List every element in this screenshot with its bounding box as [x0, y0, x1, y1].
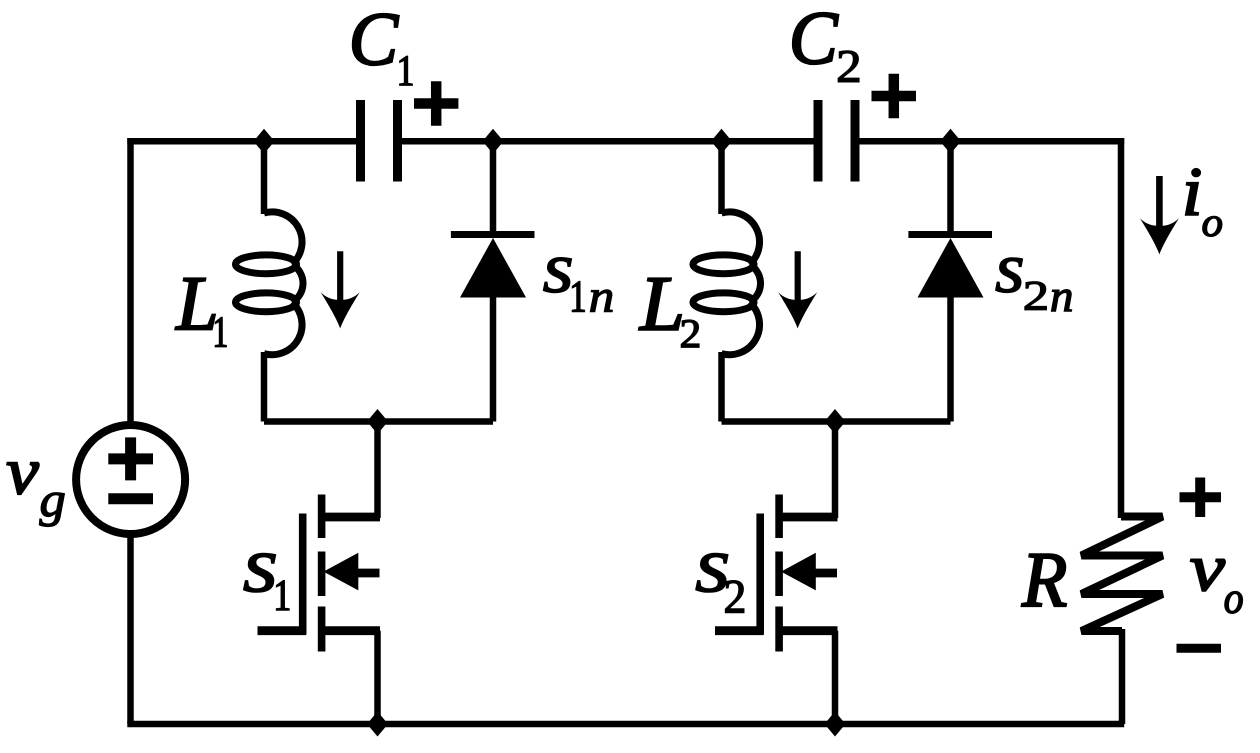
label C2 C — [793, 13, 838, 64]
label s1n sub 1 — [572, 282, 584, 312]
S2 channel and gate bars — [760, 495, 779, 652]
S2 drain wire — [832, 422, 839, 519]
transistor S1 (NMOS) — [258, 422, 381, 725]
inductor L2 — [693, 138, 761, 422]
label s2 sub 2 — [725, 581, 743, 613]
capacitor C2 — [818, 100, 855, 182]
S1 gate lead — [258, 626, 307, 635]
S2n anode wire — [947, 296, 954, 422]
wire left rail lower — [127, 535, 134, 724]
node mid m1 — [367, 409, 388, 434]
label vo v — [1191, 560, 1225, 591]
label s1 s — [244, 554, 276, 593]
diode S1n — [451, 138, 535, 422]
label R — [1022, 554, 1066, 606]
node top n1 — [254, 129, 275, 154]
S1 drain wire — [374, 422, 381, 519]
S1n triangle — [460, 238, 526, 298]
S1 source lead — [322, 626, 380, 635]
wire top rail middle segment — [397, 138, 819, 145]
node top n3 — [711, 129, 732, 154]
S1 drain lead — [322, 513, 380, 522]
S1 source wire — [374, 631, 381, 724]
node top n4 — [940, 129, 961, 154]
label vg sub g — [39, 493, 64, 527]
polarity plus C1 — [414, 81, 458, 125]
wire right rail lower — [1119, 629, 1126, 724]
label C1 C — [353, 14, 399, 65]
label L2 sub 2 — [681, 320, 699, 347]
S1 channel and gate bars — [303, 495, 322, 652]
wire top rail left segment — [127, 138, 361, 145]
transistor S2 (NMOS) — [715, 422, 838, 725]
label s2n sub n — [1052, 290, 1072, 311]
label io i — [1186, 169, 1200, 215]
label s2n sub 2 — [1025, 282, 1046, 310]
arrow current io — [1140, 176, 1179, 254]
capacitor C1 — [361, 100, 398, 182]
S1n cathode wire — [490, 138, 497, 237]
S1n cathode bar — [451, 231, 535, 238]
arrow current L1 — [321, 251, 360, 328]
label vo plus — [1180, 478, 1222, 518]
wire bottom rail — [127, 721, 1124, 728]
inductor L1 — [236, 138, 304, 422]
wire top rail right segment — [855, 138, 1125, 145]
S2n triangle — [918, 238, 984, 298]
polarity plus C2 — [872, 74, 917, 118]
S2n cathode wire — [947, 138, 954, 237]
label s1n s — [544, 258, 572, 293]
S2 body arrow — [781, 553, 816, 591]
S2n cathode bar — [908, 231, 992, 238]
node junction diamonds — [254, 129, 962, 737]
wire stage1 mid horizontal — [264, 418, 493, 425]
S2 source lead — [779, 626, 837, 635]
S2 source wire — [832, 631, 839, 724]
label io sub o — [1203, 216, 1222, 236]
label s2n s — [996, 258, 1023, 293]
label C2 sub 2 — [838, 51, 859, 82]
label L1 L — [175, 279, 214, 330]
label C1 sub 1 — [400, 56, 412, 85]
S1n anode wire — [490, 296, 497, 422]
S1 body arrow — [324, 553, 359, 591]
S2 gate lead — [715, 626, 764, 635]
vg circle — [76, 425, 185, 534]
node bottom b2 — [825, 712, 846, 737]
resistor R — [1081, 517, 1162, 632]
label vo sub o — [1225, 592, 1242, 614]
label L2 L — [639, 278, 681, 329]
node mid m2 — [825, 409, 846, 434]
label s1 sub 1 — [277, 581, 290, 610]
node top n2 — [483, 129, 504, 154]
label s1n sub n — [590, 290, 612, 312]
wire stage2 mid horizontal — [722, 418, 951, 425]
wire left rail upper — [131, 141, 265, 424]
vg plus symbol — [108, 453, 153, 464]
label s2 s — [696, 554, 728, 593]
arrow current L2 — [778, 251, 817, 328]
wire right rail upper — [951, 141, 1122, 518]
vg minus symbol — [108, 493, 153, 504]
label L1 sub 1 — [215, 317, 226, 346]
diode S2n — [908, 138, 992, 422]
voltage source vg — [76, 425, 185, 534]
node bottom b1 — [367, 712, 388, 737]
S2 drain lead — [779, 513, 837, 522]
label vo minus — [1177, 644, 1222, 653]
label vg v — [7, 463, 38, 494]
